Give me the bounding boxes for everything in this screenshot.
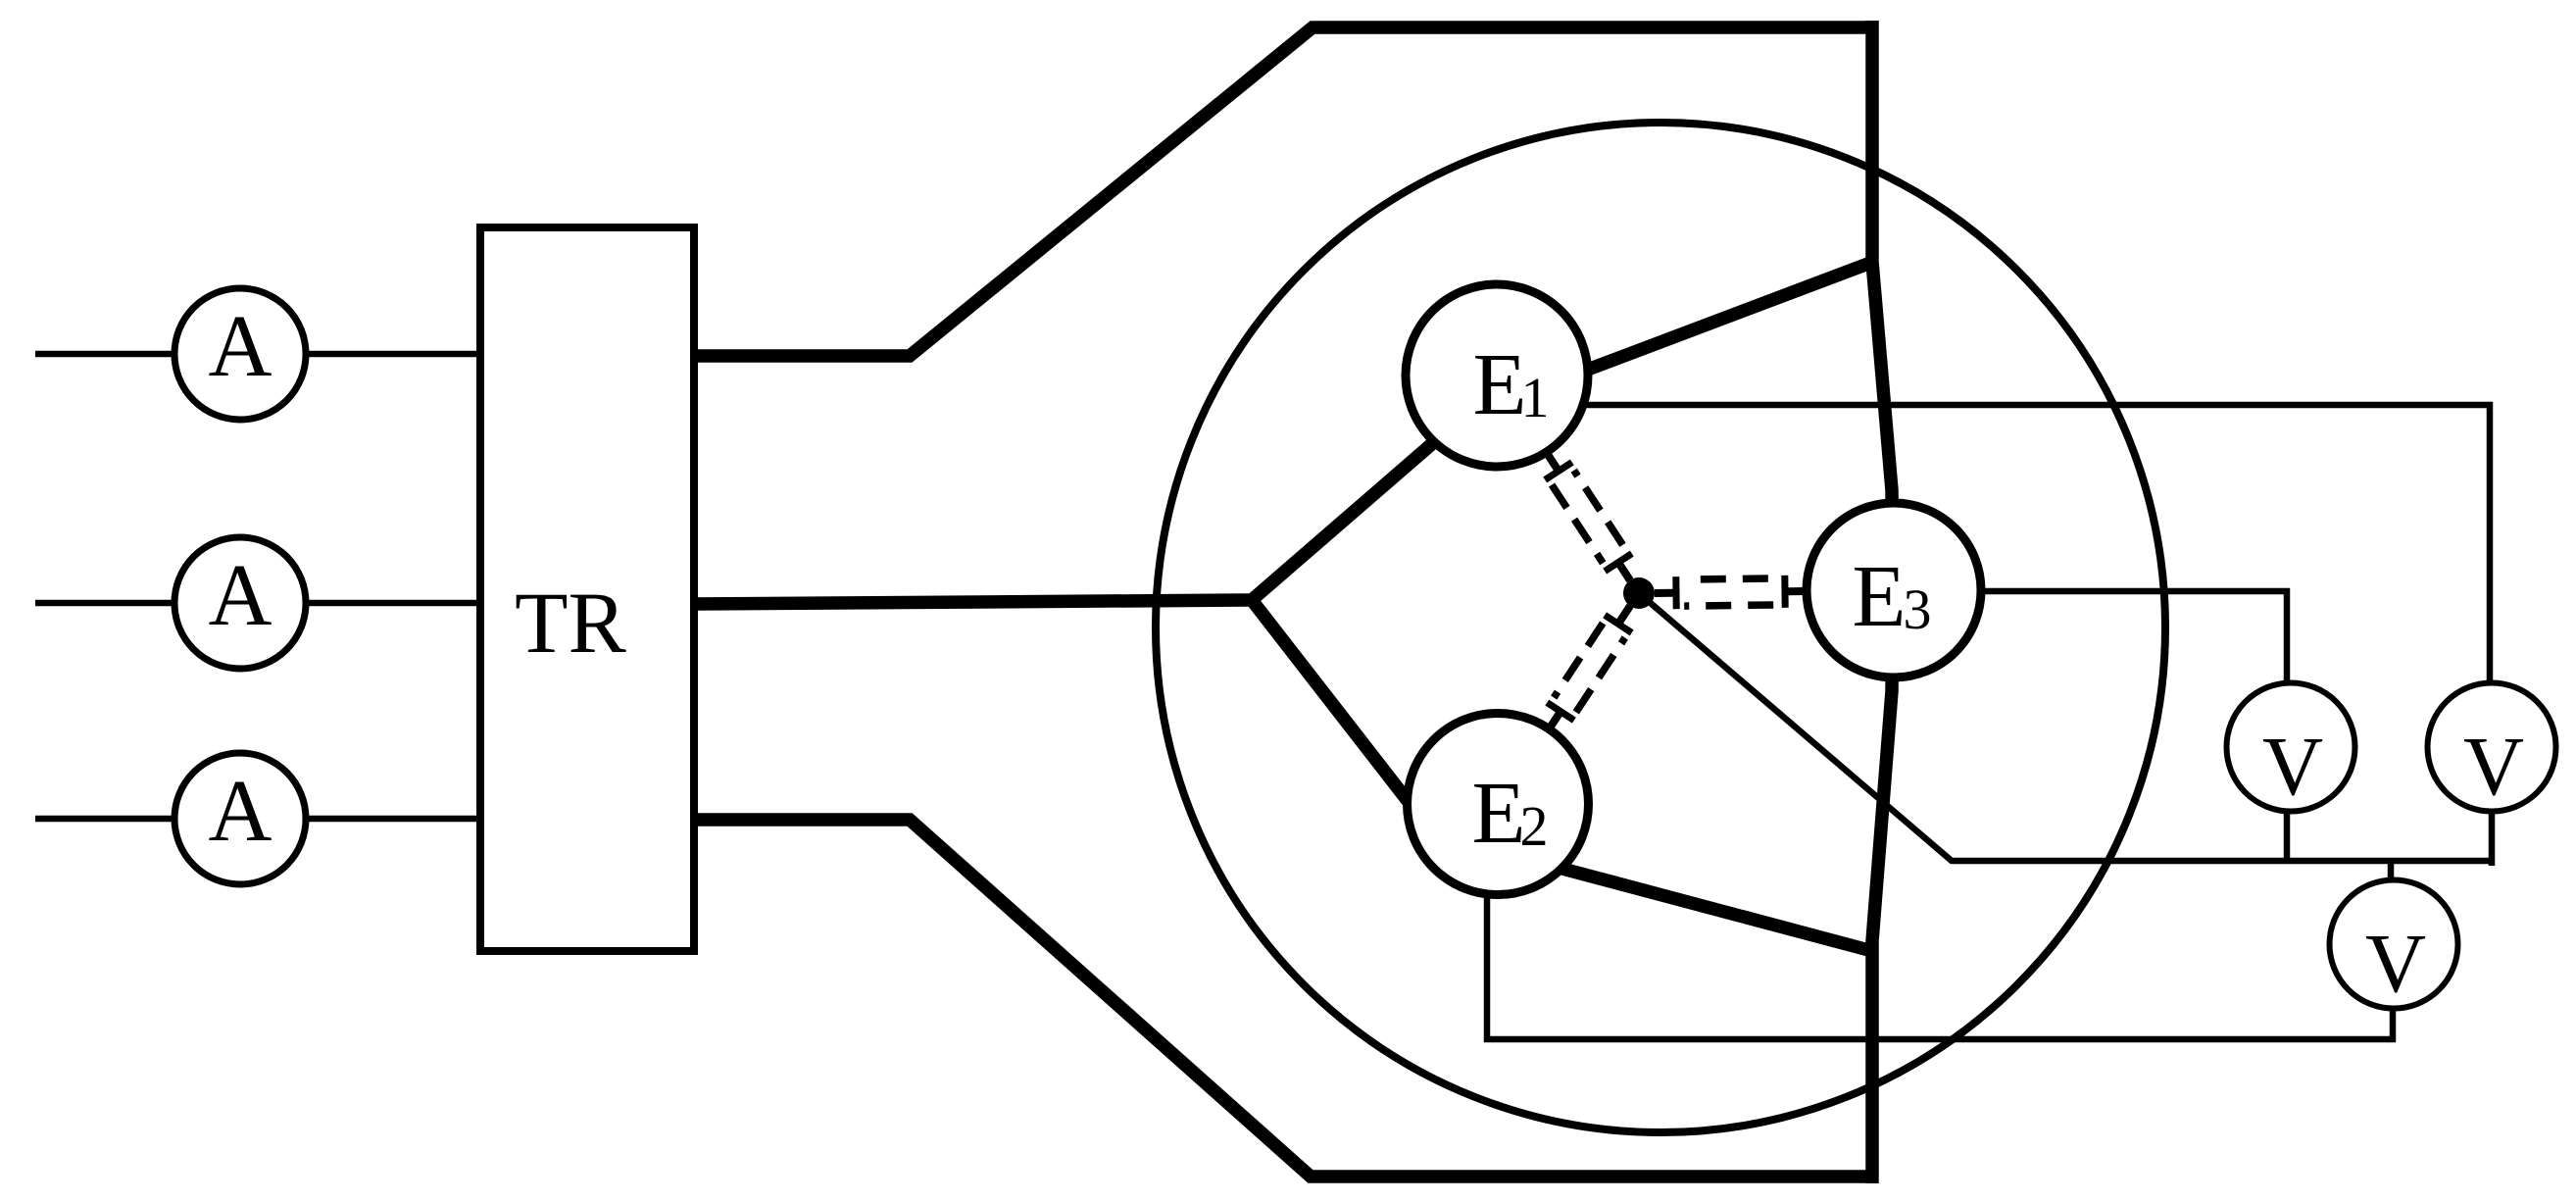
svg-text:A: A [209, 298, 272, 395]
svg-text:V: V [2463, 719, 2524, 813]
svg-text:V: V [2262, 719, 2323, 813]
svg-text:E: E [1853, 548, 1907, 645]
svg-text:E: E [1473, 336, 1527, 433]
svg-text:A: A [209, 547, 272, 644]
svg-text:2: 2 [1520, 794, 1549, 858]
svg-text:E: E [1472, 765, 1526, 862]
svg-text:3: 3 [1904, 577, 1932, 641]
svg-text:1: 1 [1521, 366, 1550, 429]
svg-text:TR: TR [515, 576, 626, 672]
svg-text:V: V [2365, 916, 2426, 1010]
svg-text:A: A [209, 763, 272, 860]
